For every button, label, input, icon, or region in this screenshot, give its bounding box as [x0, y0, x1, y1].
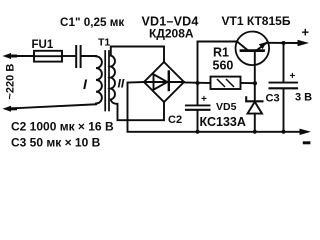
node C2 bottom junction	[196, 130, 200, 134]
bottom rail (minus)	[128, 131, 300, 133]
svg-text:С3: С3	[266, 93, 280, 105]
capacitor C3	[270, 43, 298, 132]
diode symbol inside bridge	[144, 72, 184, 91]
wire secondary bottom to bridge bottom	[111, 100, 164, 121]
svg-text:С2: С2	[168, 114, 182, 126]
svg-text:~220 В: ~220 В	[5, 64, 17, 100]
svg-text:С2 1000 мк × 16 В: С2 1000 мк × 16 В	[11, 120, 114, 134]
svg-text:КС133А: КС133А	[200, 115, 246, 129]
wire	[11, 104, 96, 108]
transformer T1 secondary winding	[111, 56, 115, 100]
svg-text:VT1 КТ815Б: VT1 КТ815Б	[222, 14, 291, 28]
svg-text:VD5: VD5	[216, 101, 237, 113]
capacitor C2	[186, 83, 210, 132]
output terminal arrow plus	[298, 40, 310, 46]
node VD5 bottom junction	[253, 130, 257, 134]
transformer T1 core	[105, 51, 109, 111]
fuse FU1	[34, 51, 62, 62]
input terminal arrow top	[3, 53, 16, 59]
input terminal arrow bottom	[3, 106, 16, 112]
resistor R1	[211, 77, 241, 89]
transformer T1 primary winding	[96, 56, 102, 103]
svg-text:Т1: Т1	[98, 37, 110, 49]
wire plus node up to top rail	[198, 42, 238, 84]
top rail (plus)	[267, 42, 298, 44]
svg-text:+: +	[302, 25, 310, 40]
wire secondary top to bridge	[111, 47, 164, 63]
svg-text:3 В: 3 В	[295, 92, 312, 104]
node plus junction	[196, 81, 200, 85]
node C3 bottom junction	[282, 130, 286, 134]
svg-text:R1: R1	[213, 46, 229, 60]
output terminal arrow minus	[300, 129, 312, 135]
wire bridge minus to bottom rail	[128, 82, 145, 132]
wire	[62, 55, 75, 57]
node base junction	[253, 81, 257, 85]
node C3 top junction	[282, 41, 286, 45]
svg-text:С3 50 мк × 10 В: С3 50 мк × 10 В	[11, 136, 101, 150]
transistor VT1	[236, 32, 270, 84]
zener diode VD5	[246, 83, 262, 132]
svg-text:+: +	[201, 94, 207, 105]
svg-text:+: +	[290, 71, 296, 82]
wire	[82, 55, 97, 57]
svg-text:С1" 0,25 мк: С1" 0,25 мк	[60, 16, 124, 29]
svg-text:FU1: FU1	[32, 39, 54, 51]
svg-text:II: II	[118, 77, 125, 91]
wire	[12, 55, 34, 57]
label minus output	[303, 141, 311, 144]
wire bridge plus to R1 node	[184, 82, 211, 85]
capacitor C1	[76, 46, 80, 67]
svg-text:КД208А: КД208А	[149, 27, 194, 41]
bridge rectifier VD1-VD4 diamond	[144, 62, 184, 102]
wire R1 to base node	[241, 82, 256, 84]
svg-text:560: 560	[213, 59, 234, 73]
